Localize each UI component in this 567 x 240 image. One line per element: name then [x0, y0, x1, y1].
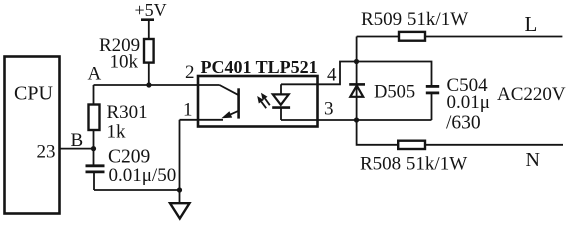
LED anode lead	[280, 84, 282, 94]
wire pin4 to top node	[281, 62, 357, 85]
svg-text:3: 3	[324, 99, 334, 120]
resistor R301	[89, 105, 100, 131]
svg-text:23: 23	[37, 142, 56, 163]
wire node A down to R301	[93, 85, 95, 105]
light arrow 1	[261, 93, 270, 105]
svg-text:0.01μ/50: 0.01μ/50	[109, 165, 177, 186]
wire top node to C504	[357, 62, 432, 87]
svg-text:0.01μ: 0.01μ	[447, 92, 490, 113]
junction dot at R209/node A	[146, 82, 151, 87]
svg-text:R509 51k/1W: R509 51k/1W	[361, 9, 468, 30]
resistor R509	[399, 32, 425, 41]
wire top node vertical L branch	[356, 37, 358, 121]
junction dot top node	[354, 59, 359, 64]
svg-text:R508 51k/1W: R508 51k/1W	[360, 154, 467, 175]
capacitor C504	[426, 86, 439, 120]
diode D505 triangle	[350, 86, 363, 97]
junction dot ground rail	[177, 187, 182, 192]
svg-text:1: 1	[183, 100, 193, 121]
diode D505 cathode bar	[349, 83, 365, 86]
wire node A horizontal to opto pin2	[94, 84, 220, 86]
capacitor C209	[86, 166, 105, 172]
ground symbol	[170, 203, 190, 218]
wire CPU pin23 to node B	[60, 148, 94, 150]
svg-text:L: L	[525, 12, 538, 36]
wire bottom node down to N branch	[357, 120, 398, 145]
+5V terminal tick	[141, 18, 154, 21]
wire pin3 bottom run to C504	[281, 119, 432, 121]
svg-text:CPU: CPU	[14, 83, 53, 105]
ground stem	[179, 190, 181, 203]
CPU block	[5, 57, 60, 214]
junction dot node B	[91, 146, 96, 151]
phototransistor collector diagonal	[220, 85, 239, 95]
wire +5V to R209	[148, 20, 150, 39]
light arrow 2	[257, 96, 266, 108]
phototransistor base bar	[237, 88, 240, 118]
LED cathode bar	[272, 106, 290, 109]
junction dot bottom node	[354, 117, 359, 122]
phototransistor emitter arrowhead	[221, 111, 232, 118]
LED triangle	[273, 94, 289, 104]
wire opto pin1 down to ground rail	[179, 120, 181, 190]
wire N line right segment	[425, 144, 563, 146]
svg-text:/630: /630	[446, 113, 481, 134]
phototransistor emitter diagonal	[226, 111, 239, 117]
svg-text:PC401 TLP521: PC401 TLP521	[201, 57, 318, 77]
ground rail wire	[94, 189, 180, 191]
wire C209 to ground rail	[93, 172, 95, 190]
svg-text:1k: 1k	[107, 121, 127, 142]
svg-text:R301: R301	[107, 102, 148, 123]
svg-text:D505: D505	[374, 83, 415, 103]
svg-text:4: 4	[327, 65, 337, 86]
svg-text:AC220V: AC220V	[497, 84, 566, 105]
svg-text:+5V: +5V	[135, 0, 167, 20]
svg-text:N: N	[526, 149, 540, 171]
svg-text:10k: 10k	[110, 52, 139, 73]
LED cathode lead	[280, 108, 282, 120]
wire R301 to node B and C209	[93, 130, 95, 165]
wire L line right segment	[425, 36, 562, 38]
resistor R508	[398, 141, 425, 149]
resistor R209	[144, 39, 154, 63]
svg-text:2: 2	[185, 62, 195, 83]
opto-coupler PC401 body	[198, 76, 318, 127]
wire L line left segment	[357, 36, 399, 38]
svg-text:A: A	[88, 64, 102, 85]
wire pin1 horizontal	[180, 119, 224, 121]
wire R209 to node A line	[148, 63, 150, 85]
